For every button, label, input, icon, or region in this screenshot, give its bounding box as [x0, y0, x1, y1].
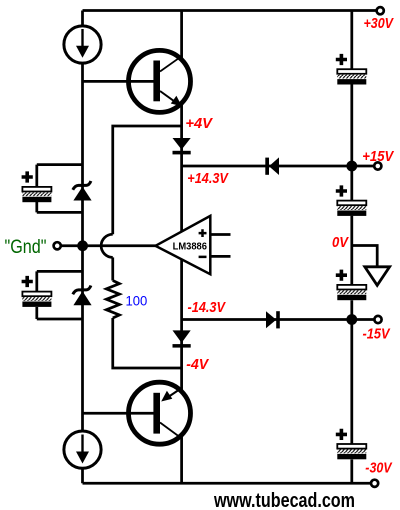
svg-text:100: 100	[126, 292, 148, 308]
svg-text:-14.3V: -14.3V	[188, 300, 227, 316]
svg-text:-4V: -4V	[186, 357, 209, 373]
svg-text:+14.3V: +14.3V	[187, 171, 229, 187]
svg-text:+30V: +30V	[364, 16, 395, 32]
svg-text:LM3886: LM3886	[173, 241, 208, 253]
svg-text:-15V: -15V	[363, 326, 391, 342]
svg-text:+15V: +15V	[362, 149, 394, 165]
svg-text:"Gnd": "Gnd"	[5, 236, 47, 258]
svg-text:-30V: -30V	[365, 460, 393, 476]
svg-text:www.tubecad.com: www.tubecad.com	[213, 490, 355, 510]
svg-text:0V: 0V	[332, 235, 349, 251]
svg-text:+4V: +4V	[185, 116, 213, 132]
